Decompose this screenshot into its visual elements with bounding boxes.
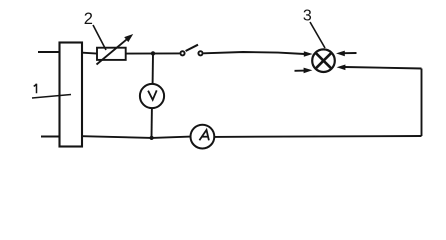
- svg-text:3: 3: [303, 8, 312, 25]
- svg-text:2: 2: [84, 10, 93, 28]
